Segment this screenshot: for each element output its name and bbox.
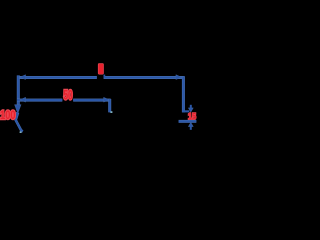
wire: right lower extension line	[179, 120, 197, 123]
wire: middle dimension line (left segment)	[17, 99, 62, 102]
arrow: left vertical, pointing down	[15, 105, 22, 114]
arrow: right lower, pointing up	[188, 122, 193, 126]
arrow: middle-left, pointing left	[20, 97, 26, 102]
label: top dimension value	[98, 63, 104, 74]
wire: top dimension line (right segment)	[104, 76, 185, 79]
node: light dot at left tail end	[20, 131, 22, 133]
wire: right lower arrow stem	[190, 126, 192, 129]
node: light dot at hook end	[110, 111, 112, 113]
wire: left extension/vertical line	[17, 75, 20, 104]
arrow: top-left, pointing left	[20, 75, 26, 80]
wire: right short extension line	[182, 110, 189, 112]
wire: left profile tail (kinked)	[15, 113, 22, 132]
wire: middle dimension right hook down	[108, 99, 111, 112]
wire: right upper arrow stem	[190, 105, 192, 108]
arrow: top-right, pointing right	[176, 75, 182, 80]
svg-text:100: 100	[0, 110, 16, 122]
label: middle dimension value 50	[63, 88, 72, 103]
wire: right vertical line	[182, 76, 185, 112]
wire: top dimension line (left segment)	[17, 76, 97, 79]
label: left dimension value	[0, 110, 16, 122]
label: right dimension value 15	[188, 111, 197, 122]
arrow: middle-right, pointing right	[104, 97, 110, 102]
svg-text:50: 50	[63, 88, 72, 103]
tick: top line gap right edge	[104, 75, 106, 77]
wire: middle dimension line (right segment)	[73, 99, 111, 102]
arrow: right upper, pointing down	[188, 108, 193, 112]
